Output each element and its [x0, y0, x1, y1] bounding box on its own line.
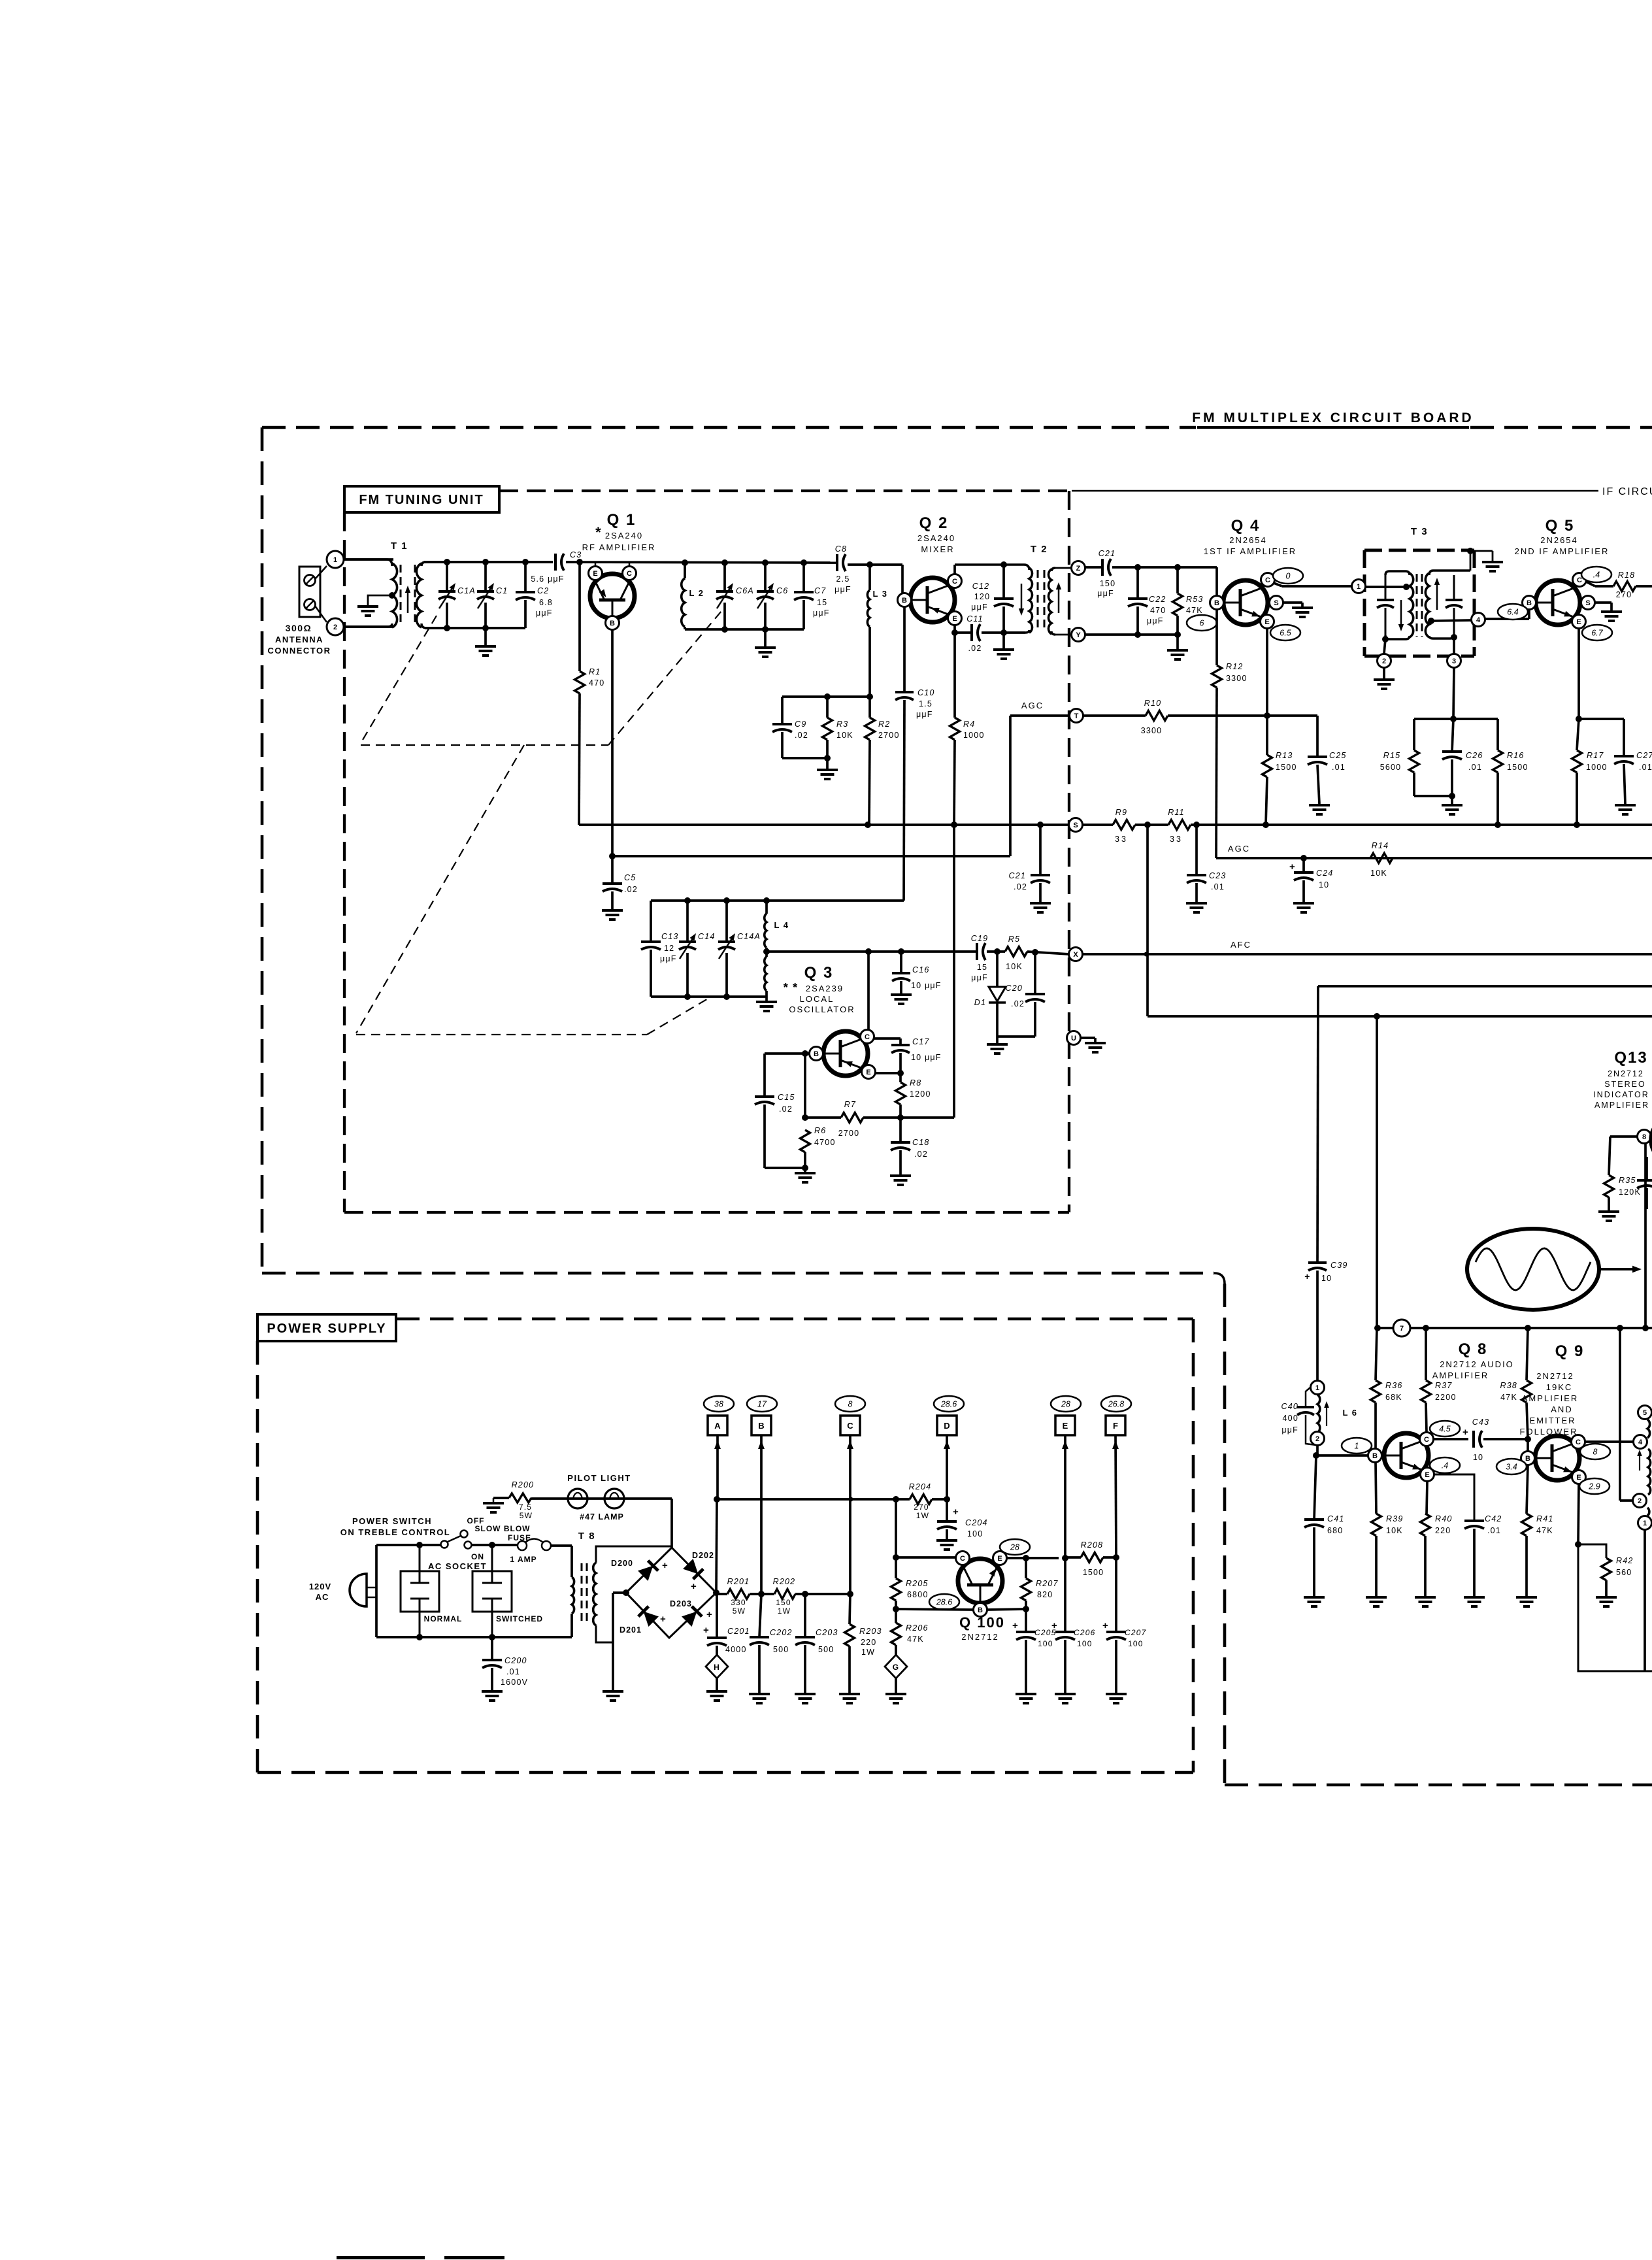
- pin 3: [1453, 639, 1455, 654]
- svg-text:R9: R9: [1115, 808, 1127, 817]
- svg-text:47K: 47K: [1186, 606, 1203, 615]
- node: [723, 993, 730, 1000]
- svg-text:Q 2: Q 2: [919, 514, 949, 532]
- node: [1403, 584, 1410, 590]
- svg-text:C40: C40: [1281, 1402, 1298, 1411]
- capacitor C42 .01: [1464, 1520, 1484, 1522]
- wire Q100 emitter line: [1006, 1557, 1059, 1559]
- node: [444, 625, 450, 631]
- resistor R7 2700: [805, 1116, 841, 1119]
- capacitor C24 10 electrolytic: [1302, 858, 1305, 872]
- svg-text:IF CIRCU: IF CIRCU: [1602, 486, 1652, 497]
- svg-text:47K: 47K: [1500, 1393, 1517, 1402]
- svg-text:300Ω: 300Ω: [286, 623, 312, 633]
- AFC output line: [1082, 953, 1652, 956]
- ground - R42: [1596, 1596, 1617, 1599]
- svg-text:R42: R42: [1616, 1556, 1634, 1565]
- wire pin1 into T3: [1366, 586, 1408, 588]
- svg-text:680: 680: [1327, 1526, 1343, 1535]
- svg-text:1: 1: [1355, 1442, 1359, 1451]
- capacitor C5 .02: [611, 856, 614, 884]
- resistor R2 2700: [868, 697, 871, 718]
- ground - C204: [936, 1539, 957, 1542]
- svg-text:1500: 1500: [1083, 1568, 1104, 1577]
- svg-text:100: 100: [1128, 1639, 1144, 1648]
- wire fuse to T8: [551, 1544, 572, 1547]
- wire R38 junction to Q9 base: [1527, 1439, 1529, 1452]
- ground - C21: [1030, 902, 1051, 905]
- wire Q9 collector to pin 4: [1585, 1440, 1634, 1443]
- node: [1450, 716, 1457, 722]
- svg-text:6.5: 6.5: [1280, 629, 1291, 638]
- svg-text:6.8: 6.8: [539, 598, 553, 607]
- svg-text:E: E: [866, 1069, 870, 1076]
- T3 secondary center tap to pin 4: [1428, 618, 1434, 624]
- svg-text:560: 560: [1616, 1568, 1632, 1577]
- svg-text:5.6 μμF: 5.6 μμF: [531, 574, 564, 584]
- wire C21 line to Q4 base: [1215, 567, 1218, 595]
- capacitor C19 15uuF: [976, 943, 978, 960]
- svg-text:C9: C9: [795, 720, 806, 729]
- capacitor C202 500: [759, 1594, 761, 1637]
- svg-text:B: B: [1372, 1452, 1378, 1460]
- svg-text:R201: R201: [727, 1577, 750, 1586]
- T3 primary winding: [1385, 571, 1410, 575]
- svg-text:C1: C1: [496, 586, 508, 595]
- svg-text:C: C: [1577, 576, 1582, 584]
- svg-text:5: 5: [1643, 1409, 1647, 1417]
- variable capacitor C14: [686, 901, 689, 942]
- svg-text:R3: R3: [836, 720, 848, 729]
- resistor R13 1500: [1266, 716, 1268, 755]
- wire bus down to pin 5: [1619, 1328, 1621, 1501]
- svg-text:B: B: [758, 1421, 764, 1431]
- AC rail left vertical: [375, 1545, 378, 1637]
- svg-text:C21: C21: [1008, 871, 1026, 880]
- svg-text:C22: C22: [1149, 595, 1166, 604]
- node: [489, 1542, 495, 1548]
- svg-text:R205: R205: [906, 1579, 929, 1588]
- terminal A with voltage 38: [704, 1396, 734, 1412]
- ground - C206: [1055, 1693, 1076, 1695]
- capacitor C26 .01: [1452, 719, 1453, 752]
- inductor L6 with pins: [1311, 1381, 1325, 1395]
- antenna terminal 2: [327, 618, 344, 635]
- Q1 bias line to AGC T pin: [612, 855, 1010, 857]
- capacitor C18 .02: [899, 1118, 902, 1142]
- svg-text:C25: C25: [1329, 751, 1347, 760]
- svg-text:+: +: [1304, 1271, 1310, 1282]
- svg-text:19KC: 19KC: [1546, 1382, 1573, 1392]
- svg-text:R11: R11: [1168, 808, 1185, 817]
- resistor R17 1000: [1577, 719, 1579, 750]
- POWER SUPPLY dashed box: [396, 1318, 1193, 1321]
- svg-text:μμF: μμF: [536, 608, 553, 618]
- svg-text:Q 5: Q 5: [1545, 517, 1575, 535]
- svg-text:Q13: Q13: [1614, 1049, 1647, 1067]
- svg-text:FM MULTIPLEX CIRCUIT BOARD: FM MULTIPLEX CIRCUIT BOARD: [1192, 410, 1474, 425]
- resistor R12 3300: [1215, 610, 1218, 665]
- svg-text:1W: 1W: [916, 1511, 929, 1520]
- wire bridge plus up to rail: [716, 1499, 717, 1593]
- svg-text:C6A: C6A: [736, 586, 754, 595]
- node - C12 bottom: [1000, 629, 1007, 636]
- node - C6 top: [762, 559, 768, 566]
- svg-text:AGC: AGC: [1228, 844, 1250, 854]
- node: [865, 822, 871, 828]
- transformer T2 primary winding: [955, 565, 1029, 570]
- svg-text:POWER SWITCH: POWER SWITCH: [352, 1516, 432, 1526]
- svg-text:B: B: [610, 620, 615, 627]
- T3 primary arrow: [1400, 600, 1402, 629]
- svg-text:150: 150: [776, 1598, 791, 1607]
- capacitor C22 470uuF: [1136, 567, 1139, 599]
- wire Y line: [1085, 633, 1178, 636]
- node: [1023, 1606, 1029, 1612]
- svg-text:C6: C6: [776, 586, 788, 595]
- node: [802, 1165, 808, 1171]
- capacitor C21 150uuF: [1085, 566, 1102, 569]
- svg-text:+: +: [703, 1625, 710, 1636]
- svg-text:C26: C26: [1466, 751, 1483, 760]
- svg-text:.02: .02: [795, 731, 808, 740]
- svg-text:3.4: 3.4: [1506, 1463, 1517, 1472]
- variable capacitor C1A: [446, 562, 448, 591]
- svg-text:1.5: 1.5: [919, 699, 933, 708]
- svg-text:R206: R206: [906, 1623, 929, 1633]
- svg-text:1600V: 1600V: [501, 1678, 528, 1687]
- SWITCHED ac socket: [472, 1571, 512, 1612]
- wire C3 to Q1: [566, 562, 836, 563]
- output transformer pins at right edge: [1638, 1406, 1652, 1420]
- node: [802, 1050, 808, 1057]
- svg-text:1ST IF AMPLIFIER: 1ST IF AMPLIFIER: [1204, 546, 1297, 556]
- variable capacitor C14A: [725, 901, 728, 942]
- svg-text:2: 2: [1638, 1497, 1642, 1505]
- svg-text:C: C: [1424, 1436, 1429, 1444]
- svg-text:R4: R4: [963, 720, 975, 729]
- pin Z: [1055, 567, 1072, 569]
- transformer T1 core: [400, 565, 402, 624]
- svg-text:28.6: 28.6: [936, 1598, 952, 1607]
- svg-text:.4: .4: [1593, 571, 1600, 580]
- node: [1449, 793, 1455, 799]
- transformer T3 dashed box: [1364, 549, 1474, 552]
- svg-text:R37: R37: [1435, 1381, 1453, 1390]
- svg-text:INDICATOR: INDICATOR: [1593, 1090, 1649, 1099]
- svg-text:C16: C16: [912, 965, 930, 974]
- node: [1451, 634, 1457, 640]
- svg-text:Q 4: Q 4: [1231, 517, 1261, 535]
- node: [1037, 822, 1044, 828]
- node: [723, 897, 730, 904]
- svg-text:1000: 1000: [1586, 763, 1608, 772]
- node: [758, 1591, 765, 1597]
- svg-text:4: 4: [1476, 616, 1481, 624]
- svg-text:4.5: 4.5: [1439, 1425, 1450, 1434]
- wire - bias network bottom bus: [782, 757, 827, 759]
- node - C12 top: [1000, 561, 1007, 568]
- svg-text:0: 0: [1286, 572, 1291, 581]
- wire Q8 emitter: [1427, 1482, 1427, 1514]
- L6 arrow: [1326, 1404, 1327, 1426]
- wire L6 to Q8 base: [1316, 1454, 1368, 1457]
- pin Y: [1055, 634, 1072, 636]
- wire connector screw1 to terminal 1: [315, 566, 327, 579]
- svg-text:+: +: [662, 1560, 669, 1571]
- capacitor C13 12uuF: [650, 901, 652, 942]
- capacitor C204 100: [946, 1499, 948, 1521]
- ground - R35: [1598, 1210, 1619, 1213]
- node: [898, 948, 904, 955]
- svg-text:8: 8: [848, 1400, 853, 1409]
- svg-text:2ND IF AMPLIFIER: 2ND IF AMPLIFIER: [1515, 546, 1610, 556]
- svg-text:E: E: [1576, 1474, 1581, 1482]
- ground - tank: [765, 997, 768, 1001]
- svg-text:12: 12: [664, 944, 674, 953]
- ground - C202: [749, 1693, 770, 1695]
- voltage oval 0: [1273, 568, 1303, 584]
- resistor R16 1500: [1496, 719, 1499, 750]
- svg-text:+: +: [660, 1614, 667, 1625]
- mechanical linkage dashed horizontal: [361, 744, 608, 746]
- node: [847, 1591, 853, 1597]
- wire T3 top to ground: [1470, 551, 1472, 571]
- svg-text:2SA239: 2SA239: [806, 984, 844, 993]
- svg-text:+: +: [1051, 1620, 1058, 1631]
- svg-text:10 μμF: 10 μμF: [911, 981, 942, 990]
- node: [763, 897, 770, 904]
- svg-text:AC SOCKET: AC SOCKET: [428, 1561, 487, 1571]
- ground - C18: [890, 1174, 911, 1177]
- wire lower bus from S junction down: [1376, 1016, 1378, 1328]
- node: [897, 1070, 904, 1076]
- node: [416, 1542, 423, 1548]
- mechanical linkage dashed line C1A: [361, 616, 437, 743]
- node - R3 top: [824, 693, 831, 700]
- capacitor C40 400uuF: [1306, 1388, 1310, 1406]
- voltage oval 4.5: [1430, 1421, 1460, 1437]
- svg-text:B: B: [814, 1050, 819, 1058]
- svg-text:R17: R17: [1587, 751, 1604, 760]
- svg-text:POWER SUPPLY: POWER SUPPLY: [267, 1321, 386, 1336]
- mechanical linkage dashed diagonal down: [356, 745, 524, 1033]
- capacitor C21 .02: [1039, 825, 1042, 875]
- svg-text:R7: R7: [844, 1100, 856, 1109]
- diode D1: [996, 952, 999, 987]
- svg-text:3: 3: [1452, 657, 1456, 665]
- svg-text:C10: C10: [917, 688, 935, 697]
- resistor R42 560: [1578, 1544, 1606, 1558]
- resistor R6 4700: [801, 1130, 810, 1152]
- capacitor C8 2.5uuF: [836, 554, 838, 571]
- node: [762, 626, 768, 633]
- svg-text:D200: D200: [611, 1559, 633, 1568]
- svg-text:120: 120: [974, 592, 990, 601]
- svg-text:+: +: [1102, 1620, 1109, 1631]
- svg-text:26.8: 26.8: [1108, 1400, 1124, 1409]
- transformer T2 core: [1037, 570, 1039, 630]
- svg-text:470: 470: [589, 678, 604, 688]
- wire terminal2 to T1 primary bottom: [344, 625, 393, 628]
- node - R10/R13 junction: [1264, 712, 1270, 719]
- svg-text:10K: 10K: [836, 731, 853, 740]
- svg-text:500: 500: [818, 1645, 834, 1654]
- svg-text:C5: C5: [624, 873, 636, 882]
- svg-text:.02: .02: [1014, 882, 1027, 891]
- inductor L3: [868, 565, 871, 590]
- terminal B with voltage 17: [747, 1396, 777, 1412]
- node - R38/C43/Q9 base junction: [1525, 1436, 1531, 1442]
- svg-text:7.5: 7.5: [519, 1503, 532, 1512]
- svg-text:D1: D1: [974, 998, 986, 1007]
- svg-text:R35: R35: [1619, 1176, 1636, 1185]
- node: [1032, 949, 1038, 956]
- svg-text:.01: .01: [1468, 763, 1482, 772]
- svg-text:1 AMP: 1 AMP: [510, 1555, 537, 1564]
- T3 secondary arrow: [1436, 580, 1438, 610]
- svg-text:100: 100: [967, 1529, 983, 1538]
- resistor R1 470: [578, 563, 581, 671]
- capacitor C2 6.8uuF: [524, 562, 527, 592]
- svg-text:5W: 5W: [520, 1511, 533, 1520]
- ground - C23: [1186, 902, 1207, 905]
- svg-text:R12: R12: [1226, 662, 1244, 671]
- svg-text:*: *: [595, 524, 602, 540]
- T3 primary tuning capacitor: [1385, 575, 1387, 600]
- svg-text:C3: C3: [570, 550, 582, 559]
- node: [893, 1496, 899, 1503]
- svg-text:6.4: 6.4: [1507, 608, 1518, 617]
- terminal C with voltage 8: [835, 1396, 865, 1412]
- svg-text:B: B: [978, 1606, 983, 1614]
- node: [944, 1496, 950, 1503]
- transformer T1 primary winding: [344, 559, 392, 566]
- svg-text:.02: .02: [779, 1105, 793, 1114]
- svg-text:3300: 3300: [1226, 674, 1247, 683]
- svg-text:4: 4: [1638, 1438, 1643, 1446]
- wire Q3 emitter: [875, 1072, 900, 1074]
- resistor R40 220: [1421, 1514, 1430, 1536]
- transistor Q100 2N2712: [958, 1559, 1002, 1603]
- node: [714, 1496, 720, 1503]
- resistor R4 1000: [953, 633, 956, 718]
- resistor R37 2200: [1425, 1328, 1427, 1380]
- svg-text:μμF: μμF: [1147, 616, 1164, 625]
- svg-text:PILOT LIGHT: PILOT LIGHT: [567, 1473, 631, 1483]
- node: [1642, 1325, 1649, 1331]
- resistor R202 150 1W: [774, 1589, 795, 1599]
- ground - R41: [1516, 1596, 1537, 1599]
- svg-text:R18: R18: [1618, 571, 1636, 580]
- svg-text:C11: C11: [966, 614, 983, 623]
- svg-text:47K: 47K: [1536, 1526, 1553, 1535]
- svg-text:SLOW BLOW: SLOW BLOW: [475, 1524, 531, 1533]
- ground - C12/C11: [1002, 633, 1005, 648]
- wire terminal1 to T1 primary: [344, 558, 393, 561]
- capacitor C12 120uuF: [1002, 565, 1005, 599]
- svg-text:270: 270: [914, 1503, 929, 1512]
- svg-text:330: 330: [731, 1598, 746, 1607]
- wire connector screw2 to terminal 2: [315, 606, 327, 622]
- terminal E with voltage 28: [1051, 1396, 1081, 1412]
- svg-text:U: U: [1071, 1035, 1076, 1042]
- node: [1263, 822, 1269, 828]
- wire E pin to bus: [595, 563, 597, 567]
- svg-text:+: +: [706, 1609, 713, 1620]
- diode D203: [682, 1606, 702, 1627]
- svg-text:C17: C17: [912, 1037, 930, 1046]
- B plus rail: [717, 1498, 910, 1501]
- svg-text:6: 6: [1200, 619, 1204, 628]
- svg-text:220: 220: [861, 1638, 876, 1647]
- svg-text:+: +: [953, 1506, 959, 1518]
- svg-text:Z: Z: [1076, 565, 1081, 573]
- voltage oval 28.6: [929, 1594, 959, 1610]
- svg-text:1W: 1W: [861, 1648, 875, 1657]
- T8 secondary bottom wire: [596, 1625, 613, 1642]
- terminal F with voltage 26.8: [1101, 1396, 1131, 1412]
- svg-text:C42: C42: [1485, 1514, 1502, 1523]
- wire B plus to Q100 collector: [895, 1499, 897, 1557]
- transformer T2 primary arrow: [1021, 584, 1023, 613]
- svg-text:EMITTER: EMITTER: [1529, 1416, 1576, 1425]
- svg-text:ON TREBLE CONTROL: ON TREBLE CONTROL: [340, 1527, 451, 1537]
- svg-text:T 1: T 1: [391, 540, 408, 552]
- svg-text:1: 1: [1315, 1384, 1319, 1392]
- capacitor C207 100 electrolytic: [1115, 1557, 1117, 1632]
- svg-text:R202: R202: [773, 1577, 796, 1586]
- pin 2: [1384, 639, 1385, 654]
- svg-text:.02: .02: [1011, 999, 1025, 1008]
- svg-text:B: B: [902, 597, 907, 605]
- wire Q8 emitter jog to C42: [1434, 1474, 1474, 1520]
- transistor Q3 2SA239 local oscillator: [823, 1031, 868, 1076]
- wire to C27: [1579, 718, 1624, 720]
- svg-text:2: 2: [1315, 1435, 1319, 1443]
- voltage oval .4: [1581, 567, 1611, 582]
- resistor R204 270 1W: [910, 1495, 932, 1504]
- svg-text:CONNECTOR: CONNECTOR: [267, 646, 331, 656]
- svg-text:C19: C19: [971, 934, 989, 943]
- svg-text:C: C: [865, 1033, 870, 1041]
- svg-text:28.6: 28.6: [940, 1400, 957, 1409]
- svg-text:D202: D202: [692, 1551, 714, 1560]
- node: [1062, 1555, 1068, 1561]
- pilot light circuit ground: [483, 1502, 504, 1504]
- node: [684, 993, 691, 1000]
- resistor R3 10K: [826, 697, 829, 718]
- node: [1576, 716, 1582, 722]
- capacitor C20 .02: [1034, 952, 1036, 994]
- svg-text:R15: R15: [1383, 751, 1401, 760]
- wire vertical from pin 8 down to bus: [1644, 1144, 1647, 1328]
- node: [824, 755, 831, 761]
- wire Q9 emitter down and out: [1578, 1484, 1579, 1544]
- ground - R6: [804, 1168, 806, 1172]
- AC bottom rail: [376, 1636, 572, 1638]
- svg-text:T 2: T 2: [1031, 544, 1048, 555]
- mechanical linkage dashed line to C6A: [608, 611, 721, 745]
- node - bridge left: [623, 1589, 629, 1596]
- pilot lamp 2: [604, 1489, 624, 1508]
- svg-text:220: 220: [1435, 1526, 1451, 1535]
- wire lamps to bridge top: [670, 1499, 673, 1548]
- node: [1525, 1325, 1531, 1331]
- svg-text:E: E: [1576, 618, 1581, 626]
- resistor R15 5600: [1413, 719, 1415, 750]
- voltage oval 6: [1187, 615, 1217, 631]
